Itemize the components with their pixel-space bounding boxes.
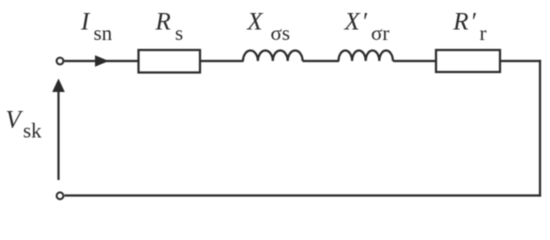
wire: X_sigma-s to X'_sigma-r <box>303 60 340 62</box>
current arrow I_sn <box>95 55 109 67</box>
wire: R'_r to top-right corner <box>500 60 541 62</box>
inductor X'_sigma-r <box>339 50 393 61</box>
wire: right vertical side <box>539 60 541 197</box>
label X_sigma-s <box>246 9 290 45</box>
wire: top-left terminal to resistor R_s <box>64 60 138 62</box>
wire: X'_sigma-r to resistor R'_r <box>393 60 436 62</box>
inductor X_sigma-s <box>243 51 303 61</box>
resistor R_s <box>139 50 201 73</box>
label R'_r <box>452 9 486 45</box>
label X'_sigma-r <box>344 9 390 45</box>
label V_sk <box>6 106 43 142</box>
wire: bottom return <box>65 194 542 196</box>
wire: R_s to inductor X_sigma-s <box>200 60 244 62</box>
voltage arrow V_sk <box>52 79 65 181</box>
terminal: bottom-left open circle <box>57 192 64 199</box>
terminal: top-left open circle <box>57 58 64 65</box>
resistor R'_r <box>436 50 500 72</box>
label I_sn <box>80 9 113 45</box>
label R_s <box>155 9 184 45</box>
